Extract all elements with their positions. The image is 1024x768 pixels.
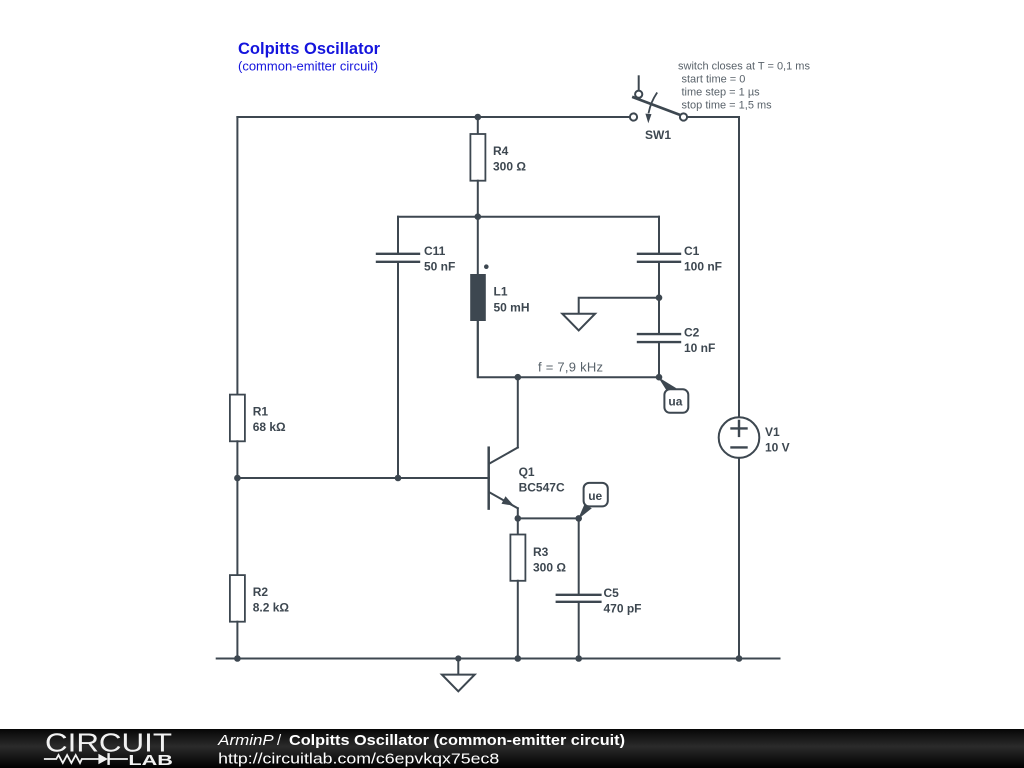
ground (bottom) [442, 659, 475, 692]
node flag ue [578, 483, 608, 519]
wire top rail [237, 116, 630, 118]
svg-text:f = 7,9 kHz: f = 7,9 kHz [538, 359, 603, 374]
svg-text:SW1: SW1 [645, 128, 671, 142]
node junction emitter [515, 515, 522, 522]
svg-text:Q1: Q1 [519, 465, 535, 479]
svg-text:10 V: 10 V [765, 441, 790, 455]
label R1 68 kOhm [253, 404, 286, 434]
svg-text:C1: C1 [684, 244, 700, 258]
svg-text:300 Ω: 300 Ω [493, 160, 526, 174]
capacitor C5 [557, 518, 601, 658]
capacitor C1 [638, 217, 680, 298]
svg-text:V1: V1 [765, 425, 780, 439]
svg-text:R3: R3 [533, 545, 549, 559]
wire emitter to ue tap [518, 517, 579, 519]
svg-text:http://circuitlab.com/c6epvkqx: http://circuitlab.com/c6epvkqx75ec8 [218, 751, 499, 768]
resistor R1 [230, 395, 245, 478]
switch SW1 [630, 76, 687, 123]
footer CircuitLab logo [45, 728, 173, 768]
svg-text:stop time = 1,5 ms: stop time = 1,5 ms [682, 100, 773, 112]
node junction C11 to base rail [395, 475, 402, 482]
title [238, 40, 381, 74]
node flag ua [658, 377, 688, 413]
wire base rail [237, 477, 489, 479]
label R3 300 Ohm [533, 545, 566, 575]
node junction inner top (L1 tap) [475, 213, 482, 220]
svg-text:ArminP: ArminP [217, 732, 274, 749]
svg-text:start time = 0: start time = 0 [682, 74, 746, 86]
svg-text:8.2 kΩ: 8.2 kΩ [253, 601, 290, 615]
svg-text:C2: C2 [684, 326, 700, 340]
capacitor C11 [377, 217, 419, 478]
node junction ue tap [575, 515, 582, 522]
svg-text:C5: C5 [604, 586, 620, 600]
footer bar [0, 729, 1024, 768]
resistor R2 [230, 478, 245, 659]
label Q1 BC547C [519, 465, 565, 495]
svg-text:10 nF: 10 nF [684, 341, 715, 355]
label L1 50 mH [494, 285, 530, 315]
svg-text:LAB: LAB [128, 752, 173, 768]
simulation annotation text [678, 61, 810, 112]
resistor R3 [510, 518, 525, 658]
label R4 300 Ohm [493, 144, 526, 174]
svg-text:ua: ua [668, 394, 682, 408]
node junction bottom C5 [575, 655, 582, 662]
wire switch to right rail corner [687, 117, 739, 417]
voltage source V1 [719, 417, 760, 658]
footer text [217, 732, 625, 768]
label C2 10 nF [684, 326, 715, 356]
svg-text:R2: R2 [253, 585, 269, 599]
transistor Q1 [489, 377, 518, 518]
node junction bottom R3 [515, 655, 522, 662]
svg-text:470 pF: 470 pF [604, 602, 642, 616]
node junction bottom ground tap [455, 655, 461, 661]
node junction bottom left (R2) [234, 655, 241, 662]
svg-text:(common-emitter circuit): (common-emitter circuit) [238, 59, 378, 74]
wire left rail [236, 117, 238, 395]
label C5 470 pF [604, 586, 642, 616]
svg-text:100 nF: 100 nF [684, 260, 722, 274]
wire inner top rail [398, 216, 659, 218]
label R2 8.2 kOhm [253, 585, 290, 615]
svg-text:L1: L1 [494, 285, 508, 299]
svg-text:time step = 1 µs: time step = 1 µs [682, 87, 761, 99]
node junction ua tap [656, 374, 663, 381]
svg-text:R1: R1 [253, 404, 269, 418]
svg-text:Colpitts Oscillator (common-em: Colpitts Oscillator (common-emitter circ… [289, 732, 625, 749]
resistor R4 [470, 117, 485, 217]
svg-text:300 Ω: 300 Ω [533, 561, 566, 575]
svg-text:50 mH: 50 mH [494, 300, 530, 314]
svg-text:C11: C11 [424, 244, 446, 258]
node junction base rail left [234, 475, 241, 482]
node junction ground tap [656, 294, 663, 301]
node junction bottom V1 [736, 655, 743, 662]
svg-text:ue: ue [588, 489, 602, 503]
node junction collector tap [515, 374, 522, 381]
inductor L1 [470, 217, 488, 377]
label C1 100 nF [684, 244, 722, 274]
svg-text:Colpitts Oscillator: Colpitts Oscillator [238, 40, 381, 58]
svg-text:68 kΩ: 68 kΩ [253, 420, 286, 434]
label frequency note [538, 359, 603, 374]
capacitor C2 [638, 298, 680, 378]
wire bottom rail [217, 658, 780, 660]
svg-text:switch closes at T = 0,1 ms: switch closes at T = 0,1 ms [678, 61, 810, 73]
node junction top (R4 tap) [475, 114, 482, 121]
svg-text:BC547C: BC547C [519, 481, 565, 495]
ground (upper) [562, 298, 659, 331]
svg-text:R4: R4 [493, 144, 509, 158]
label V1 10 V [765, 425, 790, 455]
wire inner bottom rail [478, 321, 659, 377]
svg-text:50 nF: 50 nF [424, 260, 455, 274]
label SW1 [645, 128, 671, 142]
label C11 50 nF [424, 244, 455, 274]
